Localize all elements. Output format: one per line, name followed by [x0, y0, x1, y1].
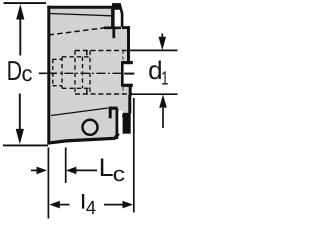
hub right edge lowest — [128, 95, 131, 114]
Lc outside arrow left — [31, 169, 38, 171]
Dc top arrow — [16, 4, 24, 20]
slanted hidden seat line (dashed) — [49, 27, 110, 35]
top insert dark cap — [112, 3, 122, 10]
svg-text:1: 1 — [161, 68, 168, 89]
d1 upper arrow stem — [161, 34, 163, 39]
insert screw — [83, 120, 98, 135]
milling cutter dimension drawing — [0, 0, 180, 228]
slot vertical a — [82, 57, 84, 89]
Lc right extension line — [65, 148, 67, 184]
bottom pocket step: vertical — [109, 107, 112, 119]
top insert pocket white slot — [114, 10, 121, 27]
Lc arrow right (pointing left) — [66, 167, 77, 175]
mid bore vertical — [61, 57, 63, 89]
body outline: bottom edge — [47, 134, 118, 144]
d1 lower arrow stem — [162, 108, 164, 128]
label l4 — [82, 194, 84, 209]
bottom seat line — [51, 108, 108, 116]
bottom tooth horizontal — [122, 114, 130, 117]
Lc left extension line (front face) — [47, 148, 49, 219]
top insert outline — [113, 5, 122, 27]
flange notch wall — [121, 61, 124, 86]
flange hidden vertical — [122, 51, 124, 95]
Dc dimension line top segment — [19, 17, 21, 56]
keyway stub bottom — [86, 89, 88, 94]
Dc dimension line bottom segment — [19, 94, 21, 132]
front chamfer line — [50, 14, 111, 16]
hidden bore top line — [75, 50, 129, 52]
l4 right extension line — [133, 98, 135, 213]
pocket front wall stub — [112, 29, 115, 39]
body outline: left edge — [47, 6, 50, 144]
hub right edge lower — [129, 85, 132, 95]
Dc bottom extension line — [3, 144, 48, 146]
centerline dash-dot — [39, 72, 57, 74]
keyway stub top — [86, 51, 88, 56]
svg-text:c: c — [22, 61, 33, 86]
svg-text:4: 4 — [86, 198, 97, 219]
cutter body fill — [47, 7, 130, 143]
pocket seat line — [104, 26, 121, 29]
Dc top extension line — [4, 2, 47, 4]
top step to hub — [122, 26, 130, 29]
bottom pocket white slot — [118, 111, 123, 141]
bottom insert right edge — [116, 108, 119, 139]
svg-text:c: c — [113, 163, 126, 186]
front recess bottom line — [53, 85, 62, 87]
d1 lower arrow — [159, 94, 167, 107]
Dc bottom arrow — [16, 129, 24, 145]
bottom tooth bar — [123, 113, 131, 134]
bottom pocket step: horizontal — [109, 107, 118, 110]
hub right edge upper — [127, 26, 130, 61]
d1 upper arrow — [159, 37, 167, 50]
front recess top line — [53, 58, 62, 60]
flange notch top arm — [122, 61, 133, 64]
mid bore bottom line — [62, 87, 90, 89]
top insert: left edge — [111, 7, 114, 27]
svg-text:L: L — [99, 154, 114, 182]
bore step vertical — [74, 51, 76, 95]
front recess vertical — [52, 59, 54, 85]
svg-text:D: D — [7, 55, 22, 86]
slot vertical b — [89, 51, 91, 95]
flange notch bottom arm — [122, 84, 133, 87]
body outline: top edge — [47, 6, 113, 9]
hidden bore bottom line — [75, 93, 129, 95]
d1 upper extension line — [130, 49, 178, 51]
mid bore top line — [62, 56, 90, 58]
l4 dimension line arrows — [49, 201, 60, 209]
d1 lower extension line — [130, 93, 178, 95]
